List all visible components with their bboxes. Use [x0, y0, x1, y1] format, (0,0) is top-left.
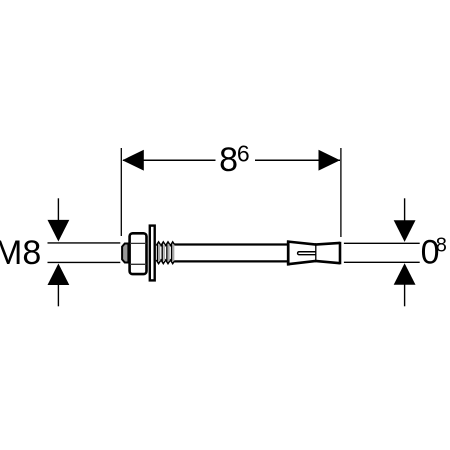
svg-text:M8: M8	[0, 234, 41, 272]
diameter 8 lower arrowhead	[394, 263, 416, 285]
diameter 8 upper witness line	[344, 242, 420, 244]
cone bottom edge	[315, 261, 340, 263]
arrowhead left of dimension 86	[122, 150, 144, 171]
washer	[150, 226, 155, 281]
M8 lower arrowhead	[48, 264, 70, 286]
expansion clip slot	[298, 252, 316, 255]
hex nut facet line upper	[130, 242, 146, 244]
cone end face	[339, 242, 342, 264]
bolt protruding threaded end cap	[122, 244, 128, 263]
dimension line 86 right segment	[255, 159, 340, 161]
threaded section	[156, 242, 175, 264]
diameter 8 lower arrow leader	[404, 284, 406, 306]
expansion clip left edge	[287, 240, 290, 265]
svg-text:6: 6	[237, 140, 250, 166]
svg-text:8: 8	[219, 141, 238, 179]
hex nut	[130, 233, 147, 274]
hex nut facet line lower	[130, 263, 146, 265]
cone top edge	[315, 243, 340, 245]
expansion clip top edge	[287, 242, 316, 245]
M8 lower arrow leader	[57, 285, 59, 307]
M8 upper arrowhead	[48, 220, 70, 242]
M8 lower witness line	[48, 261, 121, 263]
diameter 8 lower witness line	[344, 261, 420, 263]
M8 upper arrow leader	[57, 198, 59, 221]
M8 upper witness line	[48, 242, 121, 244]
clip to cone joint line	[315, 245, 317, 261]
svg-text:8: 8	[436, 234, 447, 256]
diameter 8 upper arrow leader	[404, 198, 406, 221]
arrowhead right of dimension 86	[319, 150, 341, 171]
dimension line 86 left segment	[123, 159, 216, 161]
shaft lower outline	[175, 260, 289, 262]
extension line left of dimension 86	[120, 148, 122, 236]
diameter 8 upper arrowhead	[394, 220, 416, 242]
shaft upper outline	[175, 243, 289, 245]
expansion clip bottom edge	[287, 261, 316, 264]
extension line right of dimension 86	[340, 148, 342, 237]
